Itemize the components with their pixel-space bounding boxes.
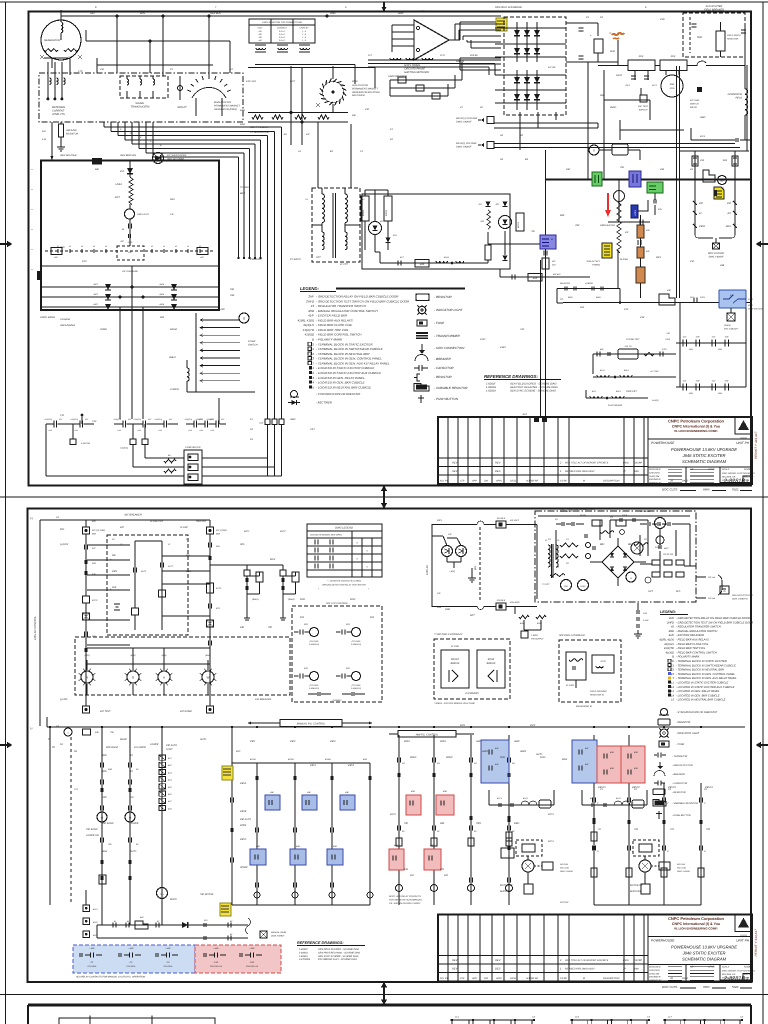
svg-text:LTR: LTR [460,977,465,980]
svg-text:42E4: 42E4 [718,348,722,351]
svg-text:4RD: 4RD [634,767,639,770]
svg-text:AD: AD [689,966,694,969]
svg-text:- VARIABLE RESISTOR: - VARIABLE RESISTOR [434,386,468,390]
svg-text:HYBRID: HYBRID [585,282,593,285]
svg-text:E3: E3 [671,673,675,676]
svg-text:DESCRIPTION: DESCRIPTION [603,480,620,483]
svg-text:BRIDGE: BRIDGE [451,662,460,665]
svg-text:AD: AD [689,468,694,471]
svg-text:43R: 43R [600,224,605,227]
svg-text:A1A(R): A1A(R) [651,399,659,402]
svg-text:- MANUAL REGULATOR CONTROL SWI: - MANUAL REGULATOR CONTROL SWITCH [316,309,378,313]
svg-text:70E: 70E [620,166,625,169]
svg-text:*: * [368,588,369,591]
svg-text:41R: 41R [725,380,729,383]
svg-text:41F: 41F [92,547,96,550]
svg-text:- TERMINAL BLOCK IN SWITCHGEAR: - TERMINAL BLOCK IN SWITCHGEAR CUBICLE [316,347,384,351]
svg-text:41F: 41F [120,240,124,243]
svg-text:52G: 52G [60,528,65,531]
svg-text:GEN PROT RELAYING - SCHEME DIA: GEN PROT RELAYING - SCHEME DIAG [318,951,360,954]
svg-text:43: 43 [311,304,315,308]
svg-text:A2: A2 [499,134,504,137]
svg-text:TRIP CKT: TRIP CKT [196,520,207,523]
svg-text:- GRD DETECTION RELAY ON FIELD: - GRD DETECTION RELAY ON FIELD BKR CUBIC… [676,617,750,620]
svg-text:74X: 74X [520,328,525,331]
svg-text:FIELD: FIELD [690,106,697,109]
svg-text:41TD: 41TD [600,660,606,663]
svg-text:NO. P.L.: NO. P.L. [440,977,449,980]
svg-text:CHECKED: CHECKED [649,969,660,972]
svg-text:REVISED PER DWG ASSY: REVISED PER DWG ASSY [565,470,595,473]
svg-text:2-8281B-2): 2-8281B-2) [350,643,361,646]
svg-text:52X: 52X [346,623,350,626]
svg-text:SCALE: SCALE [722,966,730,969]
svg-text:SWITCH: SWITCH [248,344,258,347]
svg-text:41F7: 41F7 [115,196,121,199]
svg-text:42E4: 42E4 [689,392,693,395]
svg-text:43E: 43E [240,626,245,629]
svg-text:41C1: 41C1 [497,797,502,800]
svg-text:43X: 43X [404,868,409,871]
svg-text:2HFD: 2HFD [305,299,315,303]
svg-text:AUTO: AUTO [535,753,543,756]
svg-text:SCHEMATIC DIAGRAM: SCHEMATIC DIAGRAM [682,459,727,464]
svg-text:41CC: 41CC [141,570,147,573]
svg-text:MOV3: MOV3 [517,221,520,228]
svg-text:CAP: CAP [707,178,712,181]
svg-text:TB2: TB2 [230,294,235,297]
svg-text:HMI/2: HMI/2 [520,750,527,753]
svg-text:CONTACTS SHOWN: BKR OPEN: CONTACTS SHOWN: BKR OPEN [310,534,342,537]
svg-text:NONE: NONE [744,468,751,471]
svg-text:DOC CLSS: DOC CLSS [662,985,677,989]
svg-text:AUTO: AUTO [129,850,137,853]
svg-text:- TERMINAL BLOCK IN NEUTRAL BK: - TERMINAL BLOCK IN NEUTRAL BKR [316,352,370,356]
svg-text:42/1: 42/1 [236,750,241,753]
svg-text:REV: REV [452,462,458,465]
svg-text:TB1: TB1 [230,288,235,291]
svg-text:DWG 2-8281F: DWG 2-8281F [560,870,574,873]
svg-text:74Z: 74Z [706,828,711,831]
svg-text:43E3: 43E3 [330,740,336,743]
svg-text:POWERHOUSE 13.8KV UPGRADE: POWERHOUSE 13.8KV UPGRADE [671,447,737,452]
svg-text:A1A: A1A [73,429,78,432]
svg-text:40N 40N2: 40N 40N2 [510,601,520,604]
svg-text:APPRVD BY: APPRVD BY [648,979,662,982]
svg-text:4RD/2: 4RD/2 [446,756,453,759]
svg-text:NO RUN: NO RUN [677,863,685,866]
svg-text:C1R: C1R [214,961,219,964]
svg-text:OFF: OFF [102,796,107,799]
svg-text:- LOCATED IN GEN. BKR CUBICLE: - LOCATED IN GEN. BKR CUBICLE [316,381,366,385]
svg-text:PMG: PMG [697,36,702,39]
svg-text:GEN SYNC SCHEME - SCHEME DIAG: GEN SYNC SCHEME - SCHEME DIAG [510,390,556,393]
svg-text:FRONT: FRONT [451,658,460,661]
svg-text:C2R: C2R [250,961,255,964]
svg-text:2-3 4-7: 2-3 4-7 [278,36,286,39]
svg-text:- RESISTOR: - RESISTOR [434,295,452,299]
svg-text:- TERMINAL BLOCK IN NEUTRAL BK: - TERMINAL BLOCK IN NEUTRAL BKR [676,669,724,672]
svg-text:AVR: AVR [419,10,425,13]
svg-text:41(X)D: 41(X)D [665,651,674,654]
svg-text:GRD DETECT: GRD DETECT [586,260,600,263]
svg-text:125V DC CONTROL: 125V DC CONTROL [34,616,37,640]
svg-text:41/F: 41/F [669,634,675,637]
svg-text:2CT1: 2CT1 [439,54,446,57]
svg-text:SIZE: SIZE [732,985,739,989]
svg-text:AUTO: AUTO [199,738,207,741]
svg-text:2HF TEST: 2HF TEST [637,105,649,108]
svg-text:41R: 41R [696,336,700,339]
svg-text:REV: REV [495,462,501,465]
svg-text:52G: 52G [90,12,95,15]
svg-text:SWITCH: SWITCH [639,108,648,111]
svg-text:PERMIT Y 444,447: PERMIT Y 444,447 [754,431,758,459]
svg-text:74Y: 74Y [670,828,675,831]
svg-text:A1A: A1A [258,422,264,425]
svg-text:52X: 52X [370,616,375,619]
svg-text:6 MOTOR: 6 MOTOR [81,442,91,445]
svg-text:4C1: 4C1 [168,757,172,760]
svg-text:LEGEND:: LEGEND: [300,286,319,291]
svg-text:27G: 27G [81,260,87,263]
svg-text:A1A: A1A [187,429,192,432]
svg-text:41R: 41R [592,390,596,393]
svg-text:FIELD GROUND: FIELD GROUND [590,690,607,693]
svg-text:2-3 4-7: 2-3 4-7 [278,33,286,36]
svg-text:42/3M: 42/3M [325,758,331,761]
svg-text:2-3 4-7: 2-3 4-7 [278,39,286,42]
svg-text:- LOCATED IN NEUTRAL BKR CUBIC: - LOCATED IN NEUTRAL BKR CUBICLE [676,699,726,702]
svg-text:NONE: NONE [744,966,751,969]
svg-text:- EXCITER FIELD BKR: - EXCITER FIELD BKR [676,634,704,637]
svg-text:*: * [318,588,319,591]
svg-text:(REG: (REG [748,304,753,307]
svg-text:L1: L1 [545,539,547,542]
svg-text:RHEO 70E: RHEO 70E [500,890,512,893]
svg-text:4RD: 4RD [333,845,338,848]
svg-text:52X: 52X [304,667,308,670]
svg-text:DSCRP: DSCRP [634,462,643,465]
svg-text:CONNECT: CONNECT [277,27,288,30]
svg-text:ENGINEER: ENGINEER [649,478,661,481]
svg-text:41TC: 41TC [216,587,222,590]
svg-text:DWG 1-8281F: DWG 1-8281F [456,120,472,123]
svg-text:BR1: BR1 [600,543,605,546]
svg-text:STAB: STAB [655,546,661,549]
svg-text:VOLT: VOLT [257,27,263,30]
svg-text:BUS: BUS [140,12,145,15]
svg-text:NO LOAD: NO LOAD [560,866,570,869]
svg-text:41R: 41R [696,380,700,383]
svg-text:42V: 42V [552,263,556,266]
svg-text:43E/C: 43E/C [240,838,247,841]
svg-text:4RD: 4RD [102,770,107,773]
svg-text:4RD: 4RD [610,751,615,754]
svg-text:41F GRD: 41F GRD [690,99,700,102]
svg-text:HMI/1: HMI/1 [482,750,489,753]
svg-text:21E: 21E [689,296,694,299]
svg-text:2: 2 [746,977,749,981]
svg-text:42F 42V: 42F 42V [553,273,561,276]
svg-text:MOTOR OP: MOTOR OP [500,884,513,887]
svg-text:AMP: AMP [533,277,538,280]
svg-text:W. LION ENGINEERING COMP.: W. LION ENGINEERING COMP. [674,927,718,931]
svg-text:- FIELD BKR CLOSE COIL: - FIELD BKR CLOSE COIL [676,643,709,646]
svg-text:41B BLK: 41B BLK [497,599,506,602]
svg-text:41F: 41F [128,251,132,254]
svg-text:LOWER: LOWER [150,743,159,746]
svg-text:41F2: 41F2 [530,724,536,727]
svg-text:PMG: PMG [330,12,336,15]
svg-text:APVD: APVD [707,966,715,969]
svg-text:DES: DES [495,470,501,473]
svg-text:+ 43E: + 43E [249,947,255,950]
svg-text:RES: RES [656,256,661,259]
svg-text:XFMR: XFMR [99,328,107,331]
svg-text:EXC FLD: EXC FLD [246,80,256,83]
svg-text:43E AUTO: 43E AUTO [240,818,251,821]
svg-text:A1A(CA): A1A(CA) [70,418,79,421]
svg-text:- POLARITY MARK: - POLARITY MARK [676,656,700,659]
svg-text:41R: 41R [480,220,484,223]
svg-text:APP: APP [471,480,477,483]
svg-text:52X1: 52X1 [300,598,306,601]
svg-text:A1A: A1A [116,429,121,432]
svg-text:41F2: 41F2 [652,84,658,87]
svg-text:43A: 43A [660,168,665,171]
svg-text:42F: 42F [699,202,704,205]
svg-text:C1Y: C1Y [74,788,79,791]
svg-text:4RD RAISE: 4RD RAISE [106,746,119,749]
svg-text:RHEO 90R: RHEO 90R [630,890,642,893]
svg-text:POWERHOUSE: POWERHOUSE [651,939,675,943]
svg-text:41B: 41B [723,159,728,162]
svg-text:41X: 41X [683,380,687,383]
svg-text:DATE: DATE [682,480,689,483]
svg-text:41F1: 41F1 [625,84,630,87]
svg-text:GEN BUS: GEN BUS [210,12,221,15]
svg-text:LOWER: LOWER [170,388,179,391]
svg-text:(SEE 1371-3500): (SEE 1371-3500) [167,157,184,160]
svg-text:SPARE: SPARE [240,866,248,869]
svg-text:GEN PT SIGNAL: GEN PT SIGNAL [250,126,269,129]
svg-text:A1A: A1A [157,429,162,432]
svg-text:CAP: CAP [643,612,648,615]
svg-text:52X1: 52X1 [500,756,506,759]
svg-text:A1A: A1A [209,429,214,432]
svg-text:HMI2: HMI2 [514,740,520,743]
svg-text:4160V SWGR: 4160V SWGR [40,316,55,319]
svg-text:41C1: 41C1 [244,530,250,533]
svg-text:+ 43E: + 43E [213,947,219,950]
svg-text:43B: 43B [720,264,725,267]
svg-text:2HFD: 2HFD [609,106,617,109]
svg-text:- LOCATED IN GEN. RELAY PANEL: - LOCATED IN GEN. RELAY PANEL [676,690,720,693]
svg-text:SHUNTED: SHUNTED [560,282,571,285]
svg-text:- GRD DETECTION TEST SWITCH ON: - GRD DETECTION TEST SWITCH ON FIELD BKR… [316,299,410,303]
svg-text:- FIELD BKR TRIP COIL: - FIELD BKR TRIP COIL [676,647,706,650]
svg-text:SCALE: SCALE [722,468,730,471]
svg-text:PSI SUPPLY: PSI SUPPLY [531,637,544,640]
svg-text:- INDICATOR LIGHT: - INDICATOR LIGHT [676,732,700,735]
svg-text:- LOCATED IN GEN. RELAY PANEL: - LOCATED IN GEN. RELAY PANEL [316,376,365,380]
svg-text:43E/A: 43E/A [240,782,247,785]
svg-text:GRD: GRD [670,87,675,90]
svg-text:CLOSE: CLOSE [180,526,188,529]
svg-text:REFERENCE DRAWINGS:: REFERENCE DRAWINGS: [297,941,344,945]
svg-text:AVR INPUT: AVR INPUT [559,510,573,513]
svg-text:41/F: 41/F [671,55,676,58]
svg-text:43E1: 43E1 [112,570,118,573]
svg-text:LC43: LC43 [634,210,637,216]
svg-text:42E4: 42E4 [718,392,722,395]
svg-text:EXC BRIDGE ASSY - SCHEME DIAG: EXC BRIDGE ASSY - SCHEME DIAG [318,958,357,961]
svg-text:REAR: REAR [488,658,495,661]
svg-text:41(X)TD: 41(X)TD [303,328,315,332]
svg-text:- REGULATOR TRANSFER SWITCH: - REGULATOR TRANSFER SWITCH [316,304,367,308]
svg-text:REVISED PER DWG ASSY: REVISED PER DWG ASSY [565,968,595,971]
svg-text:HYBRID: HYBRID [592,263,600,266]
svg-text:52X2: 52X2 [350,598,356,601]
svg-text:2HF: 2HF [307,295,314,299]
svg-text:+ 43E: + 43E [165,947,171,950]
svg-text:CNPC Petroleum Corporation: CNPC Petroleum Corporation [668,419,725,424]
svg-text:- FIELD BKR CONTROL SWITCH: - FIELD BKR CONTROL SWITCH [316,333,362,337]
svg-text:4RD2: 4RD2 [440,740,447,743]
svg-text:PT RATIO: PT RATIO [290,258,301,261]
svg-text:CLOSE CKT: CLOSE CKT [150,520,164,523]
svg-text:LEGEND:: LEGEND: [660,610,677,614]
svg-text:41X: 41X [216,607,220,610]
svg-text:- INDICATOR LIGHT: - INDICATOR LIGHT [434,308,464,312]
svg-text:A1A: A1A [521,413,527,416]
svg-text:70E RAISE: 70E RAISE [86,828,98,831]
svg-text:RESISTOR: RESISTOR [727,37,739,40]
svg-text:FUSE BLOCK: FUSE BLOCK [185,446,201,449]
svg-text:MEASURING 41: MEASURING 41 [576,705,593,708]
svg-text:FLASH: FLASH [620,258,628,261]
svg-text:FDR: FDR [610,50,615,53]
svg-text:52X2: 52X2 [540,756,546,759]
svg-text:A1A(CA): A1A(CA) [206,418,215,421]
svg-text:27E3: 27E3 [699,296,706,299]
svg-text:(TO DWG: (TO DWG [310,684,319,687]
svg-text:52G: 52G [92,562,96,565]
svg-text:A1A(CA): A1A(CA) [44,418,53,421]
svg-text:4RD1: 4RD1 [404,740,411,743]
svg-text:VT: VT [230,68,234,71]
svg-text:ALL/SR RF: ALL/SR RF [525,977,539,980]
svg-text:42E1: 42E1 [624,369,629,372]
svg-text:B: B [672,656,674,659]
svg-text:1/0 90: 1/0 90 [560,480,567,483]
svg-text:- RESISTOR: - RESISTOR [676,721,690,724]
svg-text:BRIDGE: BRIDGE [487,662,496,665]
svg-text:DESCRIPTION: DESCRIPTION [603,977,620,980]
svg-text:CLOSE CKT: CLOSE CKT [626,338,640,341]
svg-text:- LOCATED IN STATIC EXCITER CU: - LOCATED IN STATIC EXCITER CUBICLE [316,366,375,370]
svg-text:GRD LIGHT: GRD LIGHT [137,213,150,216]
svg-text:43E1: 43E1 [250,740,256,743]
svg-text:L2: L2 [671,686,674,689]
svg-text:CNPC International (I) & You: CNPC International (I) & You [672,425,720,429]
svg-text:CT2: CT2 [78,70,83,73]
svg-text:4RD: 4RD [108,768,113,771]
svg-text:90R: 90R [440,822,445,825]
svg-text:4RD: 4RD [411,790,416,793]
svg-text:DESL.: DESL. [510,977,517,980]
svg-text:27E2: 27E2 [661,348,668,351]
svg-text:LOWER: LOWER [130,822,139,825]
svg-text:- LOCATED IN NEUTRAL BKR CUBIC: - LOCATED IN NEUTRAL BKR CUBICLE [316,385,372,389]
svg-text:4RD: 4RD [256,845,261,848]
svg-text:(42W): (42W) [205,654,211,657]
svg-text:XFMR CTS: XFMR CTS [51,113,65,116]
svg-text:27E4: 27E4 [747,298,754,301]
svg-text:4: 4 [609,31,611,35]
svg-text:APVD: APVD [707,468,715,471]
svg-text:RESISTOR: RESISTOR [66,133,78,136]
svg-text:R1 R2 R3: R1 R2 R3 [663,553,673,556]
svg-text:- TERMINAL BLOCK IN GEN. AUX 4: - TERMINAL BLOCK IN GEN. AUX 417 RELAY P… [316,361,390,365]
svg-text:A1A(CA): A1A(CA) [195,418,204,421]
svg-text:41: 41 [114,920,116,923]
svg-text:C11: C11 [60,414,65,417]
svg-text:70E: 70E [531,230,535,233]
svg-text:M: M [583,480,585,483]
svg-text:41TC: 41TC [168,565,174,568]
svg-text:41F SHUNT DIODE: 41F SHUNT DIODE [167,154,187,157]
svg-text:V: V [593,149,595,153]
svg-text:GND: GND [445,608,450,611]
svg-text:L5: L5 [671,699,674,702]
svg-text:43P: 43P [667,289,671,292]
svg-text:T1 CPT: T1 CPT [542,583,550,586]
svg-text:41F NORM: 41F NORM [180,710,192,713]
svg-text:W. LION ENGINEERING COMP.: W. LION ENGINEERING COMP. [674,429,718,433]
svg-text:- TERMINAL BLOCK IN STATIC EXC: - TERMINAL BLOCK IN STATIC EXCITER [676,660,727,663]
svg-text:- RESISTOR: - RESISTOR [672,791,686,794]
svg-text:DM: DM [484,480,488,483]
svg-text:AMP: AMP [397,12,404,15]
svg-text:41X1: 41X1 [480,338,486,341]
svg-text:CKT: CKT [310,428,315,431]
svg-text:2CT: 2CT [367,54,373,57]
svg-text:70R: 70R [575,224,580,227]
svg-text:PT: PT [170,68,174,71]
svg-text:43DJ: 43DJ [726,225,732,228]
svg-text:AMP: AMP [420,263,425,266]
svg-text:DM: DM [484,977,488,980]
svg-text:MOTOR OP: MOTOR OP [630,884,643,887]
svg-text:70E: 70E [110,731,114,734]
svg-text:41X: 41X [683,336,687,339]
svg-text:CHECKED: CHECKED [649,471,660,474]
svg-text:90R1: 90R1 [514,822,520,825]
svg-text:41C5: 41C5 [390,813,396,816]
svg-text:74X: 74X [634,828,639,831]
svg-text:43: 43 [671,626,674,629]
svg-text:SHUNTED: SHUNTED [604,224,615,227]
svg-text:RHEO: RHEO [169,356,176,359]
svg-text:12F out: 12F out [708,576,715,579]
svg-text:REV: REV [452,968,458,971]
svg-text:42/1M: 42/1M [250,758,256,761]
svg-text:XFER: XFER [239,824,246,827]
svg-text:- GRD DETECTION RELAY ON FIELD: - GRD DETECTION RELAY ON FIELD BKR CUBIC… [316,295,399,299]
svg-text:41F GRD BANK: 41F GRD BANK [122,270,138,273]
